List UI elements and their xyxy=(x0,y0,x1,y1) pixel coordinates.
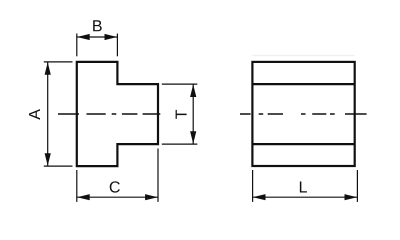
front view outline (T-shaped hub cross-section) xyxy=(77,62,158,166)
dimension T extension line top xyxy=(162,83,198,85)
dimension C arrow left xyxy=(77,194,90,200)
label C xyxy=(110,181,120,192)
dimension L extension line left xyxy=(252,170,254,202)
dimension L extension line right xyxy=(356,170,358,202)
side view inner line bottom xyxy=(252,143,354,145)
dimension A extension line bottom xyxy=(44,165,73,167)
dimension T arrow bottom xyxy=(190,131,196,144)
dimension A arrow top xyxy=(45,62,51,75)
label T (rotated) xyxy=(176,110,187,119)
centerline (front view) xyxy=(58,113,160,115)
side view inner line top xyxy=(252,83,354,85)
label B xyxy=(93,20,102,31)
dimension B arrow right xyxy=(105,34,118,40)
dimension C extension line left xyxy=(76,170,78,202)
dimension A extension line top xyxy=(44,61,73,63)
dimension L arrow right xyxy=(345,194,358,200)
dimension B arrow left xyxy=(77,34,90,40)
label A (rotated) xyxy=(29,109,40,120)
dimension A arrow bottom xyxy=(45,153,51,166)
dimension B extension line left xyxy=(76,34,78,57)
dimension L line xyxy=(253,196,358,198)
dimension A line xyxy=(47,62,49,166)
dimension C extension line right xyxy=(157,149,159,202)
dimension C arrow right xyxy=(145,194,158,200)
centerline (side view) xyxy=(240,113,367,115)
label L xyxy=(300,181,307,192)
dimension L arrow left xyxy=(253,194,266,200)
dimension B line xyxy=(77,36,118,38)
dimension T extension line bottom xyxy=(162,143,198,145)
dimension C line xyxy=(77,196,158,198)
dimension T arrow top xyxy=(190,84,196,97)
dimension T line xyxy=(192,84,194,144)
faint construction line above side view xyxy=(252,55,354,57)
side view outline rectangle xyxy=(252,62,354,166)
dimension B extension line right xyxy=(116,34,118,57)
